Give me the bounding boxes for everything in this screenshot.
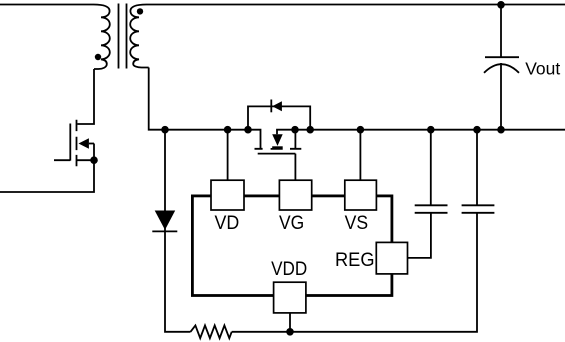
capacitor C3 curved plate xyxy=(484,64,519,73)
diode D2 legs xyxy=(248,106,310,129)
transistor Q2 channel segments xyxy=(255,148,302,150)
node rail / VD junction xyxy=(224,126,232,134)
svg-text:Vout: Vout xyxy=(525,59,560,79)
pin REG box xyxy=(376,242,407,274)
transistor Q1 body contact xyxy=(89,143,94,145)
svg-text:VDD: VDD xyxy=(271,259,307,280)
transformer T1 core xyxy=(119,4,127,69)
wire rail to VD pin xyxy=(227,130,229,181)
node rail / C2 junction xyxy=(473,126,481,134)
wire secondary top rail xyxy=(147,4,565,6)
node VDD / bottom rail junction xyxy=(286,328,294,336)
capacitor C1 plates xyxy=(415,205,448,213)
diode D2 triangle xyxy=(272,101,282,111)
pin VD box xyxy=(211,180,244,210)
node top rail / C3 junction xyxy=(497,1,505,9)
transformer T1 secondary winding xyxy=(130,5,149,68)
wire Q2 gate to VG pin xyxy=(294,154,296,181)
transistor Q2 gate bar xyxy=(258,153,296,155)
node Q1 source junction xyxy=(90,156,98,164)
wire VDD pin down xyxy=(289,313,291,332)
wire Q1 source to primary return xyxy=(0,144,94,193)
transistor Q1 body arrow xyxy=(79,138,89,149)
svg-text:VS: VS xyxy=(345,213,369,234)
transformer T1 primary winding xyxy=(94,5,110,70)
pin VG box xyxy=(279,180,311,210)
node rail / VS junction xyxy=(357,126,365,134)
diode D2 cathode bar xyxy=(270,100,272,113)
transistor Q1 gate bar xyxy=(69,124,71,161)
wire rail to VS pin xyxy=(359,130,361,181)
wire REG to C1 bottom xyxy=(408,213,431,258)
transistor Q2 body diode triangle xyxy=(272,134,283,146)
transistor Q1 channel segments xyxy=(76,120,78,167)
node rail / D2 right junction xyxy=(306,126,314,134)
wire bottom rail to C2 xyxy=(232,213,477,332)
svg-text:REG: REG xyxy=(335,250,375,271)
wire Q1 drain to primary winding xyxy=(77,69,94,124)
node rail / Q2 source junction xyxy=(291,126,299,134)
capacitor C1 top wire xyxy=(430,130,432,206)
pin VS box xyxy=(345,180,377,210)
transistor Q2 body diode cathode bar xyxy=(272,146,283,148)
diode D1 triangle xyxy=(155,211,176,230)
node rail / D2 left junction xyxy=(244,126,252,134)
capacitor C2 plates xyxy=(462,205,495,213)
node secondary phase dot xyxy=(137,8,143,14)
wire secondary rail right segment xyxy=(277,130,565,135)
wire secondary rail left segment xyxy=(149,68,261,149)
node rail / C3 bottom junction xyxy=(497,126,505,134)
resistor R1 xyxy=(191,325,232,338)
svg-text:VD: VD xyxy=(215,213,240,234)
transistor Q2 source leg xyxy=(294,130,296,149)
svg-text:VG: VG xyxy=(279,213,304,234)
diode D1 cathode bar xyxy=(152,230,177,232)
capacitor C2 top wire xyxy=(476,130,478,206)
transistor Q1 gate stub xyxy=(54,159,70,161)
node primary phase dot xyxy=(95,54,101,60)
capacitor C3 bottom wire xyxy=(500,63,502,130)
node rail / C1 junction xyxy=(427,126,435,134)
capacitor C3 straight plate xyxy=(485,56,519,58)
wire primary top input xyxy=(0,4,94,6)
transistor Q1 source contact xyxy=(77,159,95,161)
pin VDD box xyxy=(274,282,306,313)
capacitor C3 top wire xyxy=(500,5,502,57)
node rail / D1 junction xyxy=(161,126,169,134)
diode D1 branch wire xyxy=(165,130,191,332)
op-amp U1 controller block xyxy=(192,196,392,296)
